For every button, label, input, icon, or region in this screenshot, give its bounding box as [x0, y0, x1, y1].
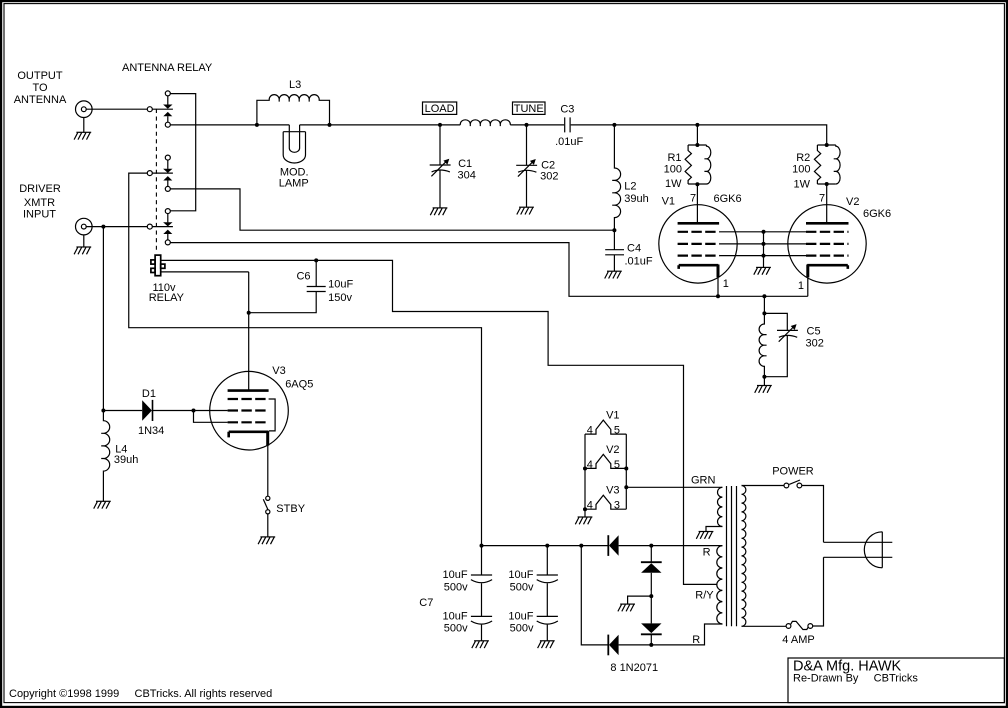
svg-text:STBY: STBY [276, 503, 305, 515]
svg-text:1W: 1W [794, 179, 811, 191]
wire mid branch center [650, 573, 652, 624]
wire J2 node down to D1/L4 [102, 227, 104, 411]
transformer primary winding [742, 486, 746, 627]
junction R2 top [825, 143, 829, 147]
tube V1 envelope [659, 205, 737, 283]
svg-text:C1: C1 [458, 158, 472, 170]
svg-text:XMTR: XMTR [24, 197, 55, 209]
ground under J1 [74, 132, 91, 139]
svg-text:10uF: 10uF [508, 610, 533, 622]
svg-text:4: 4 [587, 499, 593, 511]
svg-text:C3: C3 [560, 104, 574, 116]
wire C2 bottom lead [526, 171, 528, 208]
wire primary bottom to fuse [742, 625, 787, 627]
svg-text:.01uF: .01uF [625, 256, 653, 268]
rectifier diode mid lower [641, 623, 661, 633]
ground under C5 tank [755, 386, 772, 393]
rectifier diode bottom left [609, 635, 619, 655]
wire bottom AC rail [619, 624, 723, 645]
svg-text:D1: D1 [142, 388, 156, 400]
junction top AC mid branch [649, 544, 653, 548]
relay mechanical dashed link [155, 109, 157, 251]
wire primary top to switch [742, 485, 785, 487]
capacitor C6 plates [307, 287, 326, 292]
svg-text:LOAD: LOAD [425, 103, 455, 115]
svg-text:V2: V2 [606, 444, 619, 456]
junction L2 bottom C4 [612, 228, 616, 232]
svg-text:ANTENNA: ANTENNA [14, 94, 67, 106]
svg-text:10uF: 10uF [508, 569, 533, 581]
wire C1 bottom lead [439, 170, 441, 208]
label OUTPUT TO ANTENNA [14, 70, 67, 106]
svg-text:150v: 150v [328, 292, 352, 304]
relay pole circle 1 [147, 107, 152, 112]
junction C5 tank top [762, 311, 766, 315]
V1 plate bar [678, 222, 720, 225]
label DRIVER XMTR INPUT [19, 183, 61, 221]
wire C2 top lead [526, 125, 528, 165]
ground under C1 [430, 208, 447, 215]
V2 plate bar [806, 222, 849, 225]
wire C1 top lead [439, 125, 441, 165]
junction C6 top [314, 258, 318, 262]
wire bottom prong to fuse [813, 557, 824, 626]
ground under STBY [258, 537, 275, 544]
wire C6 top lead [315, 260, 317, 286]
svg-text:4 AMP: 4 AMP [782, 634, 814, 646]
switch POWER [784, 483, 789, 488]
coax connector J1 output [76, 101, 93, 118]
diode D1 1N34 [142, 400, 152, 421]
svg-text:V3: V3 [606, 484, 619, 496]
junction grid row2 [762, 242, 766, 246]
resistor R2 parasitic suppressor [814, 145, 840, 184]
grid bus ground tie [763, 232, 765, 268]
V3 cathode bar [229, 432, 269, 438]
wire D1 cathode to V3 grid [153, 410, 228, 412]
relay pole circle 3 [147, 224, 152, 229]
variable capacitor C1 [430, 159, 451, 177]
relay contact set 3 [163, 209, 172, 245]
svg-text:3: 3 [614, 499, 620, 511]
wire node to D1 anode [103, 410, 142, 412]
V3 cathode leg [266, 431, 269, 446]
wire switch to plug top prong [802, 486, 824, 543]
junction J2 node [101, 225, 105, 229]
svg-text:R: R [692, 634, 700, 646]
svg-text:5: 5 [614, 424, 620, 436]
svg-text:4: 4 [587, 424, 593, 436]
wire C7a leads [481, 546, 483, 641]
junction V1 cathode [716, 294, 720, 298]
svg-text:8 1N2071: 8 1N2071 [610, 662, 658, 674]
junction cathode rail C5 tap [762, 294, 766, 298]
ground C7a [472, 641, 489, 648]
main plate tank rail [170, 125, 826, 145]
wire C4 top lead [613, 230, 615, 250]
wire V2 cathode to rail [807, 277, 809, 296]
ground C7b [538, 641, 555, 648]
transformer core [727, 486, 737, 626]
junction left rail V2 [583, 467, 587, 471]
junction R1 top [695, 143, 699, 147]
svg-text:302: 302 [540, 171, 558, 183]
wire NC contacts set1 to set3 [170, 94, 195, 211]
svg-text:TO: TO [32, 82, 48, 94]
svg-text:R: R [703, 547, 711, 559]
svg-text:R1: R1 [667, 152, 681, 164]
wire mid ground tap [628, 596, 652, 604]
inductor L3 [257, 95, 330, 125]
svg-text:L2: L2 [624, 181, 636, 193]
V1 cathode bar [679, 265, 719, 269]
svg-text:302: 302 [806, 338, 824, 350]
capacitor C3 plates [565, 117, 570, 132]
wire C7b leads [546, 546, 548, 641]
ground heater rail [575, 517, 592, 524]
svg-text:7: 7 [690, 193, 696, 205]
capacitor C7 b2 [537, 616, 558, 624]
junction C5 tank bottom [762, 375, 766, 379]
wire V1 plate lead pin7 [696, 184, 698, 223]
cathode tank coil [759, 313, 767, 376]
ground grid bus [754, 267, 771, 274]
capacitor C4 plates [605, 250, 624, 255]
svg-text:RELAY: RELAY [149, 292, 185, 304]
svg-text:R/Y: R/Y [695, 590, 714, 602]
svg-text:1: 1 [723, 278, 729, 290]
V2 grid rows [806, 232, 849, 256]
svg-text:TUNE: TUNE [514, 103, 544, 115]
svg-text:10uF: 10uF [443, 569, 468, 581]
fuse 4 AMP [786, 624, 791, 629]
plug bottom prong [824, 556, 893, 558]
heater V2 filament [585, 454, 626, 468]
wire top AC rail [619, 545, 723, 547]
junction L3 right [328, 123, 332, 127]
svg-text:4: 4 [587, 459, 593, 471]
mod lamp leads [289, 125, 299, 131]
junction V3 grid node [192, 409, 196, 413]
junction C7a tap [480, 544, 484, 548]
svg-text:5: 5 [614, 459, 620, 471]
svg-text:C7: C7 [419, 597, 433, 609]
svg-text:500v: 500v [444, 582, 468, 594]
svg-text:100: 100 [664, 164, 682, 176]
svg-text:V1: V1 [662, 196, 675, 208]
mod lamp bulb outline [283, 132, 305, 163]
junction grid row3 [762, 254, 766, 258]
coax connector J2 driver input [76, 218, 93, 235]
svg-text:POWER: POWER [772, 466, 814, 478]
svg-text:500v: 500v [510, 582, 534, 594]
wire C5 top branch [764, 313, 787, 330]
wire J2 to ground [83, 235, 85, 247]
wire mid branch lower [650, 634, 652, 645]
relay pole circle 2 [147, 171, 152, 176]
svg-text:500v: 500v [510, 622, 534, 634]
AC plug body [864, 532, 882, 568]
junction bottom AC mid branch [649, 643, 653, 647]
junction left rail V3 [583, 507, 587, 511]
ground GRN winding [696, 532, 713, 539]
junction L3 left [255, 123, 259, 127]
wire V3 screen to cathode [269, 399, 276, 431]
svg-text:INPUT: INPUT [23, 209, 56, 221]
junction B+ down leg [579, 544, 583, 548]
svg-text:OUTPUT: OUTPUT [17, 70, 63, 82]
relay contact set 1 [163, 91, 172, 127]
svg-text:C5: C5 [807, 326, 821, 338]
tube V3 envelope [210, 371, 289, 450]
junction R1 rail tap [695, 123, 699, 127]
wire cathode rail down to C5 tank [763, 296, 765, 313]
wire R1 top lead [696, 125, 698, 145]
grid bus wires V1 to V2 [719, 232, 806, 256]
svg-text:1W: 1W [665, 178, 682, 190]
svg-text:DRIVER: DRIVER [19, 183, 61, 195]
mod lamp filament U tube [289, 131, 299, 152]
svg-text:GRN: GRN [691, 475, 716, 487]
resistor R1 parasitic suppressor [685, 145, 711, 184]
junction C2 tap [525, 123, 529, 127]
label R1 100 1W [664, 152, 682, 190]
wire grid step to row3 [194, 411, 228, 423]
wire relay coil bottom terminal [161, 271, 249, 273]
plug top prong [824, 541, 893, 543]
junction C6 bottom V3 plate feed [247, 311, 251, 315]
svg-text:.01uF: .01uF [555, 136, 583, 148]
junction right rail GRN [624, 485, 628, 489]
rectifier diode mid upper [641, 561, 662, 563]
junction grid row1 [762, 230, 766, 234]
svg-text:C6: C6 [296, 271, 310, 283]
V3 grid rows [228, 399, 269, 422]
switch STBY [266, 496, 270, 500]
label MOD. LAMP [279, 166, 309, 189]
svg-text:LAMP: LAMP [279, 178, 309, 190]
wire GRN winding to ground [706, 527, 722, 532]
wire J2 to relay pole 3 [86, 226, 173, 228]
svg-text:C4: C4 [627, 242, 641, 254]
svg-text:Re-Drawn By CBTricks: Re-Drawn By CBTricks [793, 673, 918, 685]
junction C1 tap [438, 123, 442, 127]
wire V1 cathode to rail [717, 277, 719, 296]
heater V3 filament [585, 495, 626, 509]
tank inductor between LOAD and TUNE [460, 120, 510, 126]
ground under L4 [94, 501, 111, 508]
B+ rail to rectifier [482, 545, 609, 547]
label 10uF 500v b [508, 569, 534, 634]
junction R2 bottom plate V2 [825, 182, 829, 186]
wire relay coil bottom down to V3 plate [248, 272, 250, 391]
ground under C4 [605, 271, 622, 278]
wire V2 plate lead pin7 [826, 184, 828, 223]
heater V1 filament [585, 420, 626, 434]
junction R1 bottom plate V1 [695, 182, 699, 186]
junction right rail V2 [624, 467, 628, 471]
svg-text:39uh: 39uh [624, 193, 648, 205]
transformer GRN winding [718, 487, 723, 526]
svg-text:6AQ5: 6AQ5 [285, 379, 313, 391]
transformer HV secondary winding [717, 546, 723, 624]
junction mid ground tap [649, 594, 653, 598]
svg-text:C2: C2 [541, 159, 555, 171]
inductor L4 [101, 411, 109, 502]
svg-text:1N34: 1N34 [138, 425, 164, 437]
ground rectifier mid [618, 604, 635, 611]
variable capacitor C2 [516, 159, 537, 177]
svg-text:10uF: 10uF [443, 610, 468, 622]
wire C6 bottom lead [249, 292, 317, 313]
inductor L2 [612, 125, 620, 230]
variable capacitor C5 [777, 324, 798, 342]
label R2 100 1W [792, 152, 810, 191]
svg-text:V1: V1 [606, 410, 619, 422]
label 10uF 500v a1 [443, 569, 469, 634]
svg-text:39uh: 39uh [114, 454, 138, 466]
wire relay pole 2 B+ feed [129, 173, 482, 545]
svg-text:R2: R2 [796, 152, 810, 164]
svg-text:500v: 500v [444, 622, 468, 634]
svg-text:7: 7 [819, 193, 825, 205]
capacitor C7 a1 [471, 575, 492, 583]
wire J1 to ground [83, 118, 85, 133]
svg-text:1: 1 [798, 280, 804, 292]
svg-text:V3: V3 [272, 365, 285, 377]
LOAD box label [423, 102, 457, 114]
wire tank bottom to ground [763, 377, 765, 386]
wire C5 bottom branch [764, 336, 787, 377]
title box [788, 658, 1004, 703]
V3 plate bar [228, 389, 269, 392]
svg-text:6GK6: 6GK6 [714, 193, 742, 205]
capacitor C7 b1 [537, 575, 558, 583]
svg-text:6GK6: 6GK6 [863, 208, 891, 220]
heater left rail [584, 434, 586, 517]
wire C4 bottom lead [613, 255, 615, 271]
relay contact set 2 [163, 155, 172, 191]
svg-text:V2: V2 [846, 196, 859, 208]
junction D1 L4 node [101, 409, 105, 413]
capacitor C7 a2 [471, 616, 492, 624]
wire relay coil top terminal to transformer R/Y [161, 260, 718, 584]
V1 cathode leg pin1 [717, 265, 720, 278]
svg-text:Copyright ©1998 1999 CBTr: Copyright ©1998 1999 CBTricks. All right… [9, 688, 272, 700]
wire GRN to transformer [626, 486, 722, 488]
TUNE box label [513, 102, 546, 114]
wire set2 NO contact to L2 bottom [170, 189, 614, 230]
wire V3 cathode to STBY [267, 446, 269, 497]
wire J1 to relay pole 1 [86, 108, 173, 110]
junction C7b tap [545, 544, 549, 548]
svg-text:10uF: 10uF [328, 278, 353, 290]
svg-text:MOD.: MOD. [280, 166, 309, 178]
V1 grid rows [678, 232, 720, 256]
junction L2 top [612, 123, 616, 127]
svg-text:L3: L3 [289, 79, 301, 91]
wire mid branch upper [650, 546, 652, 563]
relay coil 110v symbol [151, 255, 165, 276]
rectifier diode top left [609, 535, 619, 555]
ground under J2 [74, 247, 91, 254]
svg-text:ANTENNA RELAY: ANTENNA RELAY [122, 62, 213, 74]
V2 cathode leg pin1 [806, 265, 809, 278]
tube V2 envelope [788, 205, 866, 283]
wire B+ to lower diode [581, 546, 608, 645]
wire set3 NO contact to cathode rail [170, 243, 808, 297]
svg-text:100: 100 [792, 164, 810, 176]
heater right rail [625, 434, 627, 509]
V2 cathode bar [807, 265, 848, 269]
ground under C2 [517, 207, 534, 214]
wire STBY to ground [267, 514, 269, 537]
svg-text:304: 304 [458, 169, 476, 181]
